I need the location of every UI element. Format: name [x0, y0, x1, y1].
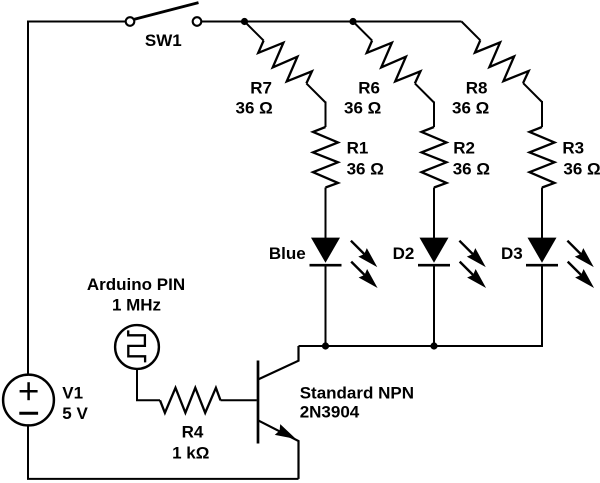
svg-text:R8: R8 [466, 78, 488, 97]
wire top rail from switch to R8 bend [201, 21, 461, 23]
plus sign [20, 390, 38, 393]
minus sign [19, 412, 38, 415]
switch pole terminal [126, 17, 135, 26]
wire bottom-left from V1 to emitter [28, 425, 299, 479]
resistor R6 36 ohm [344, 22, 434, 118]
node junction dot top rail / R7 [241, 18, 248, 25]
svg-text:36 Ω: 36 Ω [344, 99, 381, 118]
node junction dot collector rail / D2 [430, 342, 437, 349]
transistor Q1 2N3904 NPN [258, 346, 414, 479]
resistor R4 1k [160, 388, 257, 463]
wire LED D2 cathode to collector rail [433, 265, 435, 346]
resistor R2 36 ohm [422, 102, 490, 239]
svg-text:R2: R2 [453, 139, 475, 158]
switch SW1 [126, 3, 202, 50]
svg-text:R4: R4 [182, 423, 204, 442]
svg-text:V1: V1 [62, 384, 83, 403]
LED D3 [501, 236, 598, 292]
svg-text:SW1: SW1 [145, 31, 182, 50]
svg-text:Standard NPN: Standard NPN [300, 383, 414, 402]
square-wave glyph [128, 330, 145, 362]
LED D2 [393, 236, 491, 292]
svg-text:D3: D3 [501, 244, 523, 263]
wire top-left from supply corner to switch [28, 22, 126, 375]
svg-text:R1: R1 [347, 139, 369, 158]
svg-text:1 MHz: 1 MHz [112, 295, 161, 314]
emitter lead [258, 420, 299, 479]
base bar [257, 361, 260, 444]
switch throw terminal [193, 17, 202, 26]
svg-text:5 V: 5 V [62, 404, 88, 423]
svg-text:36 Ω: 36 Ω [347, 159, 384, 178]
node junction dot collector rail / D1 [322, 342, 329, 349]
svg-text:1 kΩ: 1 kΩ [172, 444, 209, 463]
resistor R7 36 ohm [236, 22, 326, 118]
resistor R1 36 ohm [313, 102, 384, 239]
node junction dot top rail / R6 [349, 18, 356, 25]
svg-text:36 Ω: 36 Ω [236, 99, 273, 118]
svg-text:D2: D2 [393, 244, 415, 263]
collector lead [258, 346, 299, 380]
svg-text:Blue: Blue [269, 244, 306, 263]
signal source V2 Arduino PIN 1 MHz [87, 275, 185, 369]
resistor R3 36 ohm [530, 101, 600, 239]
svg-text:36 Ω: 36 Ω [563, 159, 600, 178]
wire V2 output down to R4 [137, 369, 160, 400]
svg-text:R7: R7 [250, 78, 272, 97]
svg-text:R6: R6 [358, 78, 380, 97]
LED D1 Blue [269, 236, 382, 292]
wire LED D1 cathode to collector rail [325, 265, 327, 346]
svg-text:36 Ω: 36 Ω [453, 159, 490, 178]
svg-text:Arduino PIN: Arduino PIN [87, 275, 185, 294]
svg-text:R3: R3 [562, 139, 584, 158]
voltage source V1 5V [3, 375, 88, 426]
switch blade [134, 3, 199, 20]
emitter arrow [275, 424, 299, 444]
svg-text:36 Ω: 36 Ω [452, 99, 489, 118]
resistor R8 36 ohm [452, 22, 542, 118]
wire LED D3 cathode down and left along collector rail [299, 265, 543, 346]
svg-text:2N3904: 2N3904 [300, 403, 360, 422]
